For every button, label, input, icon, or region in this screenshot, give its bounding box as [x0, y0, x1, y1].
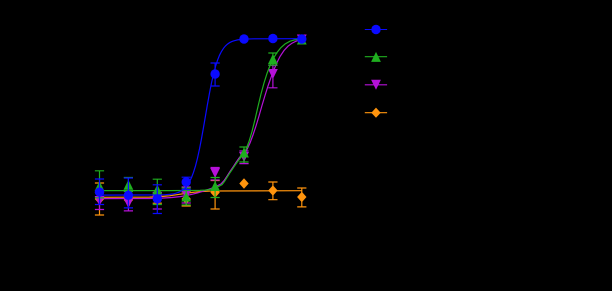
green error bars — [95, 53, 278, 205]
legend row 1: blue circle — [365, 29, 387, 31]
legend row 2: green up triangle — [365, 56, 387, 58]
blue markers (circles) — [95, 187, 104, 196]
legend row 3: magenta down triangle — [365, 84, 387, 86]
orange markers (diamonds) — [95, 194, 104, 204]
blue error bars — [95, 63, 220, 214]
orange series fitted curve — [100, 191, 302, 198]
blue series fitted curve — [100, 39, 302, 195]
magenta error bars — [95, 65, 278, 211]
green markers (up triangles) — [95, 181, 105, 191]
magenta series fitted curve — [100, 40, 302, 199]
green series fitted curve — [100, 39, 302, 191]
legend row 4: orange diamond — [365, 112, 387, 114]
orange error bars — [95, 181, 307, 216]
magenta markers (down triangles) — [95, 196, 105, 206]
